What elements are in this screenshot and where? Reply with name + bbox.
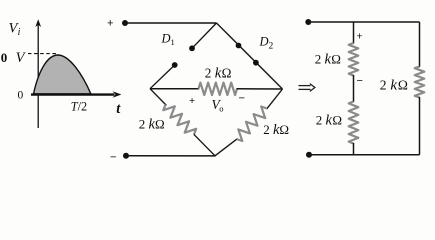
node: top-left input terminal xyxy=(122,20,128,26)
wire: lower-left resistor to bottom node xyxy=(194,134,215,156)
svg-text:2 kΩ: 2 kΩ xyxy=(139,117,165,133)
svg-text:−: − xyxy=(239,93,245,105)
waveform plot x-axis xyxy=(31,91,121,98)
diode D1 open-circuit lower dot xyxy=(172,62,178,68)
svg-text:T/2: T/2 xyxy=(71,100,87,114)
wire: left node to lower-left resistor xyxy=(150,89,167,106)
wire: between middle resistors xyxy=(353,75,355,102)
wire: lower-right resistor to bottom node xyxy=(215,139,237,156)
waveform plot y-axis xyxy=(35,19,41,128)
wire: D1 lower terminal to left node xyxy=(150,65,175,89)
wire: top input to bridge apex xyxy=(125,22,217,24)
diode D2 short-circuit lower dot xyxy=(253,60,259,66)
svg-text:2 kΩ: 2 kΩ xyxy=(315,52,341,68)
wire: middle resistor to right node xyxy=(237,88,283,90)
svg-text:+: + xyxy=(107,18,113,30)
node: equivalent circuit bottom-left terminal xyxy=(306,152,312,158)
svg-text:0: 0 xyxy=(1,50,8,65)
wire: equivalent circuit bottom rail xyxy=(309,154,420,156)
svg-text:+: + xyxy=(189,95,195,107)
half-sine input pulse (shaded) xyxy=(34,55,91,94)
svg-text:2 kΩ: 2 kΩ xyxy=(205,66,232,82)
wire: top rail to upper middle resistor xyxy=(353,22,355,44)
wire: bottom input to bottom node xyxy=(126,155,216,157)
svg-text:2 kΩ: 2 kΩ xyxy=(263,122,289,138)
resistor 2k (bridge lower-left) xyxy=(163,105,196,135)
wire: equivalent circuit top rail xyxy=(308,21,419,23)
svg-text:−: − xyxy=(110,152,116,164)
resistor 2k (equivalent right) xyxy=(415,67,425,98)
resistor 2k (bridge lower-right) xyxy=(237,107,268,142)
svg-text:2 kΩ: 2 kΩ xyxy=(380,78,408,94)
dashed peak level line xyxy=(28,53,57,55)
svg-text:2 kΩ: 2 kΩ xyxy=(316,112,342,128)
node: equivalent circuit top-left terminal xyxy=(305,19,311,25)
wire: right node to lower-right resistor xyxy=(267,89,283,109)
resistor 2k (equivalent upper middle) xyxy=(349,43,359,76)
resistor 2k (equivalent lower middle) xyxy=(349,102,359,144)
wire: right branch upper xyxy=(419,22,421,67)
wire: lower middle resistor to bottom rail xyxy=(353,143,355,155)
node: bottom-left input terminal xyxy=(123,153,129,159)
svg-text:0: 0 xyxy=(18,90,24,102)
implies arrow xyxy=(299,84,315,92)
resistor 2k (bridge middle) xyxy=(199,83,238,95)
wire: apex to right node through shorted diode D2 xyxy=(217,23,283,89)
svg-text:−: − xyxy=(357,75,363,87)
diode D1 open-circuit upper dot xyxy=(189,45,195,51)
wire: right branch lower xyxy=(419,97,421,155)
diode D2 short-circuit upper dot xyxy=(236,43,242,49)
wire: left node to middle resistor xyxy=(150,88,199,90)
wire: apex to D1 upper terminal xyxy=(192,23,217,48)
svg-text:+: + xyxy=(357,31,363,43)
